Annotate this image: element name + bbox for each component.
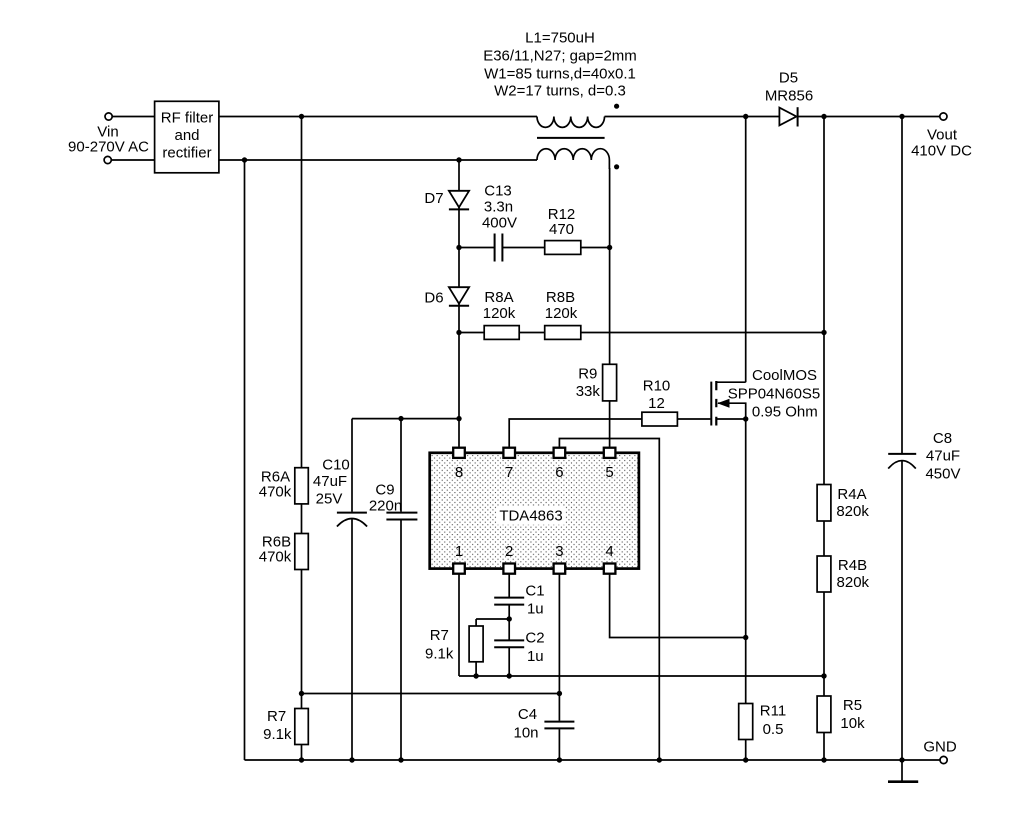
svg-text:RF filter: RF filter: [161, 109, 214, 126]
svg-text:SPP04N60S5: SPP04N60S5: [728, 386, 821, 403]
svg-text:Vout: Vout: [927, 127, 958, 144]
svg-text:120k: 120k: [483, 305, 516, 322]
svg-text:470: 470: [549, 221, 574, 238]
svg-text:10k: 10k: [840, 715, 865, 732]
svg-text:470k: 470k: [259, 484, 292, 501]
svg-text:25V: 25V: [316, 491, 343, 508]
svg-text:120k: 120k: [545, 305, 578, 322]
svg-text:D6: D6: [424, 290, 443, 307]
svg-text:D5: D5: [779, 70, 798, 87]
svg-text:3.3n: 3.3n: [484, 199, 513, 216]
svg-text:9.1k: 9.1k: [263, 726, 292, 743]
svg-text:10n: 10n: [513, 725, 538, 742]
svg-text:and: and: [174, 127, 199, 144]
svg-text:0.95 Ohm: 0.95 Ohm: [752, 404, 818, 421]
svg-text:7: 7: [505, 464, 513, 481]
svg-text:0.5: 0.5: [763, 721, 784, 738]
svg-text:12: 12: [648, 395, 665, 412]
svg-text:W1=85 turns,d=40x0.1: W1=85 turns,d=40x0.1: [484, 65, 636, 82]
svg-text:C9: C9: [375, 481, 394, 498]
svg-text:R11: R11: [760, 702, 786, 719]
svg-text:1u: 1u: [527, 601, 544, 618]
svg-text:5: 5: [605, 464, 613, 481]
svg-text:R4A: R4A: [837, 486, 866, 503]
svg-text:R8B: R8B: [546, 289, 575, 306]
svg-text:400V: 400V: [482, 215, 517, 232]
svg-text:410V DC: 410V DC: [911, 143, 972, 160]
svg-text:C8: C8: [933, 430, 952, 447]
svg-text:D7: D7: [424, 190, 443, 207]
svg-text:820k: 820k: [836, 503, 869, 520]
svg-text:47uF: 47uF: [313, 473, 347, 490]
svg-text:E36/11,N27; gap=2mm: E36/11,N27; gap=2mm: [483, 47, 637, 64]
svg-text:3: 3: [555, 543, 563, 560]
svg-text:47uF: 47uF: [926, 447, 960, 464]
svg-text:1: 1: [455, 543, 463, 560]
svg-text:R5: R5: [843, 697, 862, 714]
svg-text:GND: GND: [923, 739, 957, 756]
svg-text:L1=750uH: L1=750uH: [525, 30, 595, 47]
svg-text:450V: 450V: [925, 465, 960, 482]
svg-text:6: 6: [555, 464, 563, 481]
svg-text:220n: 220n: [369, 498, 402, 515]
svg-text:R10: R10: [643, 377, 671, 394]
svg-text:33k: 33k: [576, 383, 601, 400]
svg-text:2: 2: [505, 543, 513, 560]
svg-text:C13: C13: [484, 183, 512, 200]
svg-text:C10: C10: [322, 457, 350, 474]
svg-text:R4B: R4B: [838, 557, 867, 574]
svg-text:C1: C1: [525, 583, 544, 600]
svg-text:820k: 820k: [837, 574, 870, 591]
svg-text:R8A: R8A: [484, 289, 513, 306]
svg-text:9.1k: 9.1k: [425, 645, 454, 662]
svg-text:C2: C2: [525, 630, 544, 647]
svg-text:MR856: MR856: [765, 87, 813, 104]
svg-text:4: 4: [605, 543, 613, 560]
svg-text:1u: 1u: [527, 648, 544, 665]
svg-text:TDA4863: TDA4863: [499, 508, 562, 525]
svg-text:rectifier: rectifier: [162, 145, 211, 162]
svg-text:CoolMOS: CoolMOS: [752, 367, 817, 384]
svg-text:90-270V AC: 90-270V AC: [68, 139, 149, 156]
svg-text:R7: R7: [267, 708, 286, 725]
svg-text:470k: 470k: [259, 549, 292, 566]
svg-text:R9: R9: [578, 366, 597, 383]
svg-text:R7: R7: [430, 627, 449, 644]
svg-text:W2=17 turns, d=0.3: W2=17 turns, d=0.3: [494, 82, 626, 99]
svg-text:C4: C4: [518, 706, 537, 723]
svg-text:8: 8: [455, 464, 463, 481]
